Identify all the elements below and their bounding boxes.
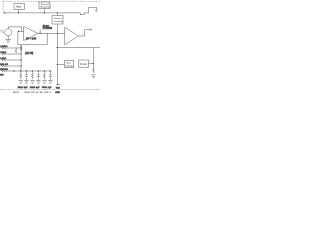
- svg-text:AV = 200: AV = 200: [26, 37, 37, 40]
- IC dashed boundary left edge: [2, 1, 4, 13]
- source VIN circle: [5, 29, 12, 36]
- svg-text:INP: INP: [0, 74, 4, 76]
- svg-text:(1/2 W): (1/2 W): [25, 52, 33, 55]
- junction pin4/bus: [20, 65, 21, 66]
- resistor R comp1: [20, 71, 22, 79]
- ground under source: [5, 40, 11, 43]
- capacitor comp4: [37, 71, 40, 80]
- junction on rail above current-limit box: [57, 12, 58, 13]
- IC dashed boundary top edge: [2, 0, 100, 2]
- block output bias box: [79, 60, 89, 67]
- ground comp2: [24, 81, 28, 84]
- pin wire 1 with resistor: [1, 47, 21, 49]
- op-amp A1: [24, 27, 38, 41]
- wire load riser: [93, 48, 95, 69]
- wire bypass stub: [39, 29, 41, 33]
- svg-text:5µF: 5µF: [24, 87, 28, 89]
- svg-text:BASS TR: BASS TR: [25, 91, 35, 94]
- ground comp1: [19, 81, 23, 84]
- svg-text:Gain: Gain: [66, 63, 72, 65]
- resistor load: [93, 68, 95, 73]
- pin terminal Vs: [96, 10, 98, 12]
- ground comp3: [30, 81, 34, 84]
- wire supply rail riser to terminal: [89, 7, 97, 13]
- svg-text:50kΩ: 50kΩ: [18, 87, 23, 89]
- junction gain change tap: [57, 64, 58, 65]
- junction load node: [93, 63, 94, 64]
- svg-text:Limiting: Limiting: [54, 20, 63, 23]
- pin wire 5 with resistor: [1, 70, 52, 72]
- capacitor comp6: [49, 71, 52, 80]
- wire tab stub: [57, 84, 60, 86]
- svg-text:7.5kΩ: 7.5kΩ: [0, 52, 6, 54]
- junction tab node: [57, 84, 58, 85]
- wire A1 output to A2 input: [38, 32, 65, 34]
- source AC tilde marks: [1, 30, 4, 33]
- svg-text:INPUT: INPUT: [13, 92, 20, 94]
- junction on rail under thermal box: [44, 12, 45, 13]
- svg-text:75kΩ: 75kΩ: [42, 87, 47, 89]
- resistor comp5: [43, 71, 45, 79]
- svg-text:VOL BA: VOL BA: [35, 91, 44, 94]
- block current limit box: [52, 15, 63, 24]
- svg-text:8 ohm: 8 ohm: [80, 64, 87, 66]
- junction on rail left: [4, 12, 5, 13]
- svg-text:2µF: 2µF: [36, 87, 40, 89]
- op-amp A2: [65, 27, 79, 45]
- junction pin1/bus: [20, 47, 21, 48]
- svg-text:10kΩ: 10kΩ: [30, 87, 35, 89]
- svg-text:1µF: 1µF: [48, 87, 52, 89]
- wire A1 feedback riser: [46, 33, 48, 45]
- ground comp4: [36, 81, 40, 84]
- block bias box: [14, 4, 24, 10]
- junction tap R comp5: [44, 70, 45, 71]
- svg-text:Bias: Bias: [16, 6, 22, 9]
- svg-text:Shutdown: Shutdown: [40, 6, 51, 9]
- wire A1 feedback bottom: [18, 44, 47, 46]
- svg-text:METRD: METRD: [0, 69, 8, 71]
- block thermal shutdown box: [39, 2, 50, 9]
- junction tap R comp3: [32, 70, 33, 71]
- ground comp5: [42, 81, 46, 84]
- wire gain change tap: [57, 63, 64, 65]
- junction feedback node: [57, 47, 58, 48]
- ground load: [91, 75, 95, 78]
- resistor comp3: [31, 71, 33, 79]
- wire source bottom: [7, 36, 9, 40]
- block gain change box: [65, 60, 74, 67]
- junction pin2/bus: [20, 53, 21, 54]
- svg-text:BYPASS: BYPASS: [43, 27, 53, 30]
- IC dashed boundary bottom edge: [0, 89, 100, 91]
- pin wire 2 with resistor: [1, 53, 21, 55]
- svg-text:1.5kΩ: 1.5kΩ: [0, 58, 6, 60]
- junction on rail under bias box: [18, 12, 19, 13]
- junction bypass tap: [39, 33, 40, 34]
- junction input node: [18, 31, 19, 32]
- svg-text:MID AU: MID AU: [0, 63, 8, 66]
- svg-text:GND: GND: [55, 92, 60, 94]
- svg-text:Thermal: Thermal: [41, 4, 50, 6]
- svg-text:TAB: TAB: [56, 86, 61, 89]
- junction bus bottom: [20, 70, 21, 71]
- junction pin5 mid: [13, 70, 14, 71]
- wire input jog into amp A1: [18, 30, 24, 32]
- junction tap C comp6: [50, 70, 51, 71]
- wire feedback net to output network: [57, 47, 100, 49]
- capacitor comp2: [25, 71, 28, 80]
- junction tap C comp2: [26, 70, 27, 71]
- ground comp6: [48, 81, 52, 84]
- wire bias bus vertical: [20, 45, 22, 71]
- wire V+ supply rail: [3, 13, 88, 15]
- wire source top to input: [8, 27, 21, 32]
- pin wire 3 with resistor: [1, 59, 21, 61]
- svg-text:Current: Current: [54, 17, 62, 20]
- resistor on bias bus: [20, 46, 22, 51]
- pin wire 4 with resistor: [1, 65, 21, 67]
- junction pin3/bus: [20, 59, 21, 60]
- svg-text:Change: Change: [65, 65, 74, 67]
- wire A2 output jog: [78, 30, 90, 36]
- wire output bias to load: [89, 63, 94, 65]
- junction current limit node: [57, 33, 58, 34]
- svg-text:1.25kΩ: 1.25kΩ: [0, 46, 7, 48]
- wire bias box stub: [17, 10, 19, 13]
- pin terminal output: [90, 29, 92, 31]
- wire current-limit vertical bus: [56, 24, 58, 85]
- wire current limit stub: [56, 13, 58, 16]
- junction tap C comp4: [38, 70, 39, 71]
- wire A1 feedback drop: [17, 31, 19, 44]
- svg-text:GND 4: GND 4: [44, 91, 51, 94]
- resistor between pin1 and pin2: [15, 49, 17, 54]
- wire thermal shutdown stub: [43, 9, 45, 13]
